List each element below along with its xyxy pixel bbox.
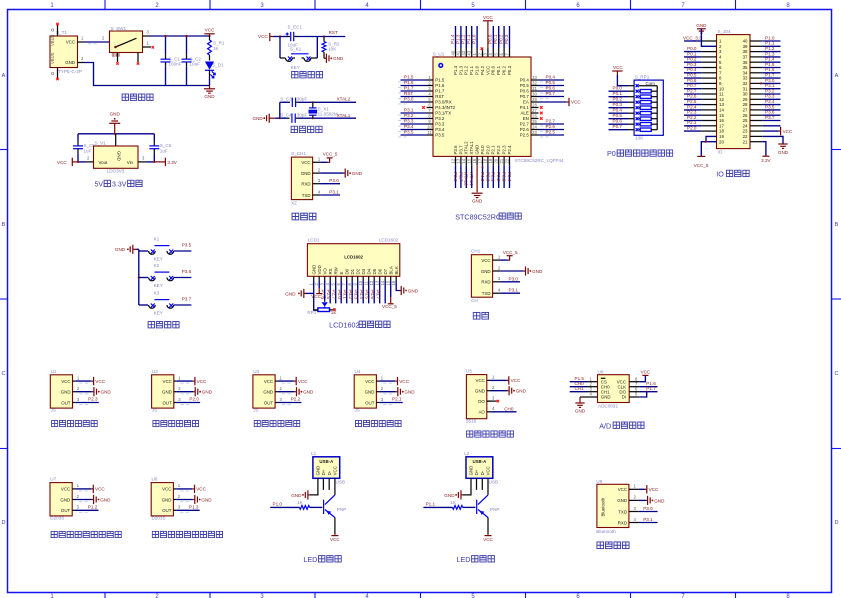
svg-text:18: 18: [719, 129, 724, 134]
pin DO no-connect: [487, 400, 497, 402]
resistor RP1 element P0.4: [609, 108, 658, 115]
5V to 3.3V LDO circuit block: [57, 112, 178, 189]
MCU right pin 23 P2.5: [520, 129, 564, 137]
regulator S_V1 LDO3V3: [94, 146, 139, 168]
MCU left pin 10 P3.4: [398, 124, 445, 132]
svg-text:13: 13: [375, 280, 380, 285]
LCD pin 7 D0: [337, 268, 349, 303]
wire CH0 U5 AO: [491, 411, 517, 413]
svg-text:STC89C52RC: STC89C52RC: [455, 212, 501, 221]
svg-text:GND: GND: [100, 497, 111, 502]
svg-text:S_CH1: S_CH1: [291, 151, 306, 156]
svg-text:VCC: VCC: [162, 487, 171, 492]
svg-text:P1.3: P1.3: [455, 34, 460, 44]
svg-text:B: B: [835, 222, 839, 228]
svg-text:P0.1: P0.1: [496, 65, 501, 75]
svg-text:P1.4: P1.4: [765, 57, 775, 62]
svg-text:16: 16: [391, 280, 396, 285]
svg-text:40: 40: [743, 39, 748, 44]
svg-text:P3.0: P3.0: [329, 178, 339, 183]
svg-text:EA: EA: [523, 100, 529, 105]
svg-text:A: A: [2, 73, 6, 79]
svg-text:D+: D+: [474, 469, 479, 475]
pin T1 top with no-ERC: [57, 25, 59, 37]
caption 复位电路: [292, 72, 323, 78]
wire P3.1 pin4: [500, 292, 520, 294]
svg-text:OUT: OUT: [163, 400, 173, 405]
caption 下载口: [292, 213, 316, 220]
svg-text:E: E: [339, 272, 344, 275]
svg-text:U4: U4: [355, 369, 361, 374]
svg-text:D+: D+: [321, 469, 326, 475]
power port VCC of U7: [75, 485, 105, 493]
svg-text:P4.1: P4.1: [520, 105, 530, 110]
power port 3.3V: [154, 161, 165, 163]
svg-text:30: 30: [532, 91, 537, 96]
svg-text:PNP: PNP: [490, 507, 499, 512]
svg-text:1uF: 1uF: [160, 148, 168, 153]
svg-text:GND: GND: [263, 390, 273, 395]
svg-text:VCC: VCC: [196, 487, 206, 492]
resistor RP1 element P0.3: [609, 102, 658, 109]
svg-text:D6: D6: [377, 268, 382, 274]
svg-text:P0.1: P0.1: [613, 91, 623, 96]
wire P2.3 IO left pin 15: [684, 110, 717, 116]
caption 红外对射模块 (U1): [52, 420, 98, 426]
resistor S_R1 1K: [209, 36, 211, 40]
caption 串口: [473, 312, 488, 319]
svg-text:3.3V: 3.3V: [167, 160, 177, 165]
svg-text:TXD: TXD: [482, 291, 491, 296]
A/D converter U6 ADC0832: [570, 369, 658, 430]
resistor RP1 element P0.6: [609, 119, 658, 126]
wire CH1 U6 left pin 3: [570, 386, 598, 392]
svg-text:P0.7: P0.7: [376, 290, 381, 300]
svg-text:P0.6: P0.6: [520, 89, 530, 94]
power port 3.3V bottom: [750, 141, 762, 143]
svg-text:LCD1602: LCD1602: [329, 320, 359, 329]
switch pin1 no connect: [143, 46, 152, 48]
wire P1.5 IO right pin 35: [750, 62, 781, 68]
svg-text:OUT: OUT: [61, 508, 71, 513]
MCU top pin P4.2: [477, 47, 485, 75]
svg-text:P1.0: P1.0: [765, 35, 775, 40]
svg-text:P0.1: P0.1: [343, 290, 348, 300]
svg-text:32: 32: [743, 81, 748, 86]
svg-text:26: 26: [743, 113, 748, 118]
MCU top pin P0.1: [493, 26, 501, 75]
svg-text:D: D: [835, 520, 839, 526]
ground GND of U4: [379, 387, 415, 396]
svg-text:P1.0: P1.0: [475, 65, 480, 75]
resistor 1K base: [299, 506, 309, 510]
svg-text:27: 27: [532, 108, 537, 113]
svg-text:P3.5: P3.5: [435, 133, 445, 138]
svg-text:P0: P0: [607, 149, 616, 158]
wire P3.0 pin3: [500, 281, 520, 283]
svg-text:10K: 10K: [635, 135, 644, 140]
MCU bottom pin P2.3: [499, 145, 507, 188]
svg-text:33: 33: [532, 75, 537, 80]
MCU bottom pin P2.0: [483, 145, 491, 188]
svg-text:P3.1/TX: P3.1/TX: [435, 111, 451, 116]
svg-text:U9: U9: [596, 479, 602, 484]
svg-text:P3.1: P3.1: [404, 107, 414, 112]
svg-text:VCC: VCC: [365, 379, 374, 384]
svg-text:XZ: XZ: [291, 200, 297, 205]
wire CH0 U6 left pin 2: [570, 381, 598, 387]
svg-text:P0.1: P0.1: [493, 34, 498, 44]
wire P3.3 IO right pin 29: [750, 94, 781, 100]
svg-text:OUT: OUT: [162, 508, 172, 513]
LCD body: [307, 244, 399, 277]
wire XTAL1 bottom: [275, 117, 287, 119]
svg-text:P0.4: P0.4: [359, 290, 364, 300]
MCU right pin 28 P4.1: [520, 102, 543, 110]
svg-text:12: 12: [719, 97, 724, 102]
svg-text:5V: 5V: [95, 182, 104, 189]
svg-text:IO: IO: [718, 149, 723, 154]
svg-text:P0.3: P0.3: [613, 102, 623, 107]
svg-text:P2.2: P2.2: [687, 115, 697, 120]
svg-text:10: 10: [427, 124, 432, 129]
wire P0.3 IO left pin 6: [684, 62, 717, 68]
MCU left pin 5 P3.0/RX: [398, 96, 452, 104]
USB D+ D- stubs: [322, 478, 324, 490]
power port VCC left: [72, 161, 78, 163]
svg-text:15: 15: [467, 158, 472, 163]
svg-text:S_SW1: S_SW1: [111, 26, 127, 31]
svg-text:24: 24: [532, 124, 537, 129]
svg-text:VCC: VCC: [61, 487, 70, 492]
svg-text:25: 25: [743, 118, 748, 123]
zone numbers top: [50, 3, 790, 9]
svg-text:XTAL1: XTAL1: [469, 172, 474, 186]
svg-text:P0.2: P0.2: [502, 65, 507, 75]
svg-text:29: 29: [532, 97, 537, 102]
wire P0.6 IO left pin 9: [684, 78, 717, 84]
infrared modules row: [50, 369, 415, 427]
svg-text:GND: GND: [303, 390, 314, 395]
svg-text:P0.6: P0.6: [613, 119, 623, 124]
svg-text:GND: GND: [472, 199, 483, 204]
svg-text:VCC_5: VCC_5: [382, 304, 397, 309]
wire P0.2 IO left pin 5: [684, 57, 717, 63]
LCD pin 15 BLA: [386, 266, 394, 285]
svg-text:P1.2: P1.2: [461, 34, 466, 44]
LED D1: [205, 62, 214, 70]
svg-text:CH: CH: [471, 298, 478, 303]
svg-text:11: 11: [364, 280, 369, 285]
ground GND U6 pin4: [580, 396, 598, 398]
svg-text:P1.1: P1.1: [426, 502, 436, 507]
LCD pin 16 BLK: [391, 266, 399, 285]
svg-text:VCC: VCC: [95, 379, 105, 384]
power port VCC of U8: [176, 485, 206, 493]
svg-text:P3.7: P3.7: [458, 145, 463, 155]
svg-text:P1.5: P1.5: [404, 74, 414, 79]
module U7: [50, 477, 80, 521]
module U8: [151, 477, 181, 521]
svg-text:P1.5: P1.5: [765, 62, 775, 67]
svg-text:GND: GND: [601, 395, 611, 400]
svg-text:VCC: VCC: [618, 487, 627, 492]
wire P3.1 IO right pin 31: [750, 83, 781, 89]
svg-text:U5: U5: [466, 369, 472, 374]
svg-text:39: 39: [743, 44, 748, 49]
svg-text:32: 32: [532, 80, 537, 85]
reset circuit block 复位电路: [258, 25, 345, 78]
wire GND return bottom rail: [78, 62, 85, 64]
resistor S_R2 10K: [323, 37, 325, 42]
svg-text:P1.2: P1.2: [88, 504, 98, 509]
wire P1.7 IO right pin 33: [750, 73, 781, 79]
svg-text:21: 21: [499, 158, 504, 163]
ground GND right: [750, 135, 762, 137]
svg-text:RS: RS: [328, 268, 333, 274]
svg-text:GND: GND: [202, 390, 213, 395]
svg-text:P2.6: P2.6: [546, 124, 556, 129]
caption 红外对射模块 (U4): [355, 420, 401, 426]
svg-text:STC89C52RC_LQFP44: STC89C52RC_LQFP44: [515, 158, 564, 163]
zone letters right: [835, 73, 839, 526]
wire P2.7 IO left pin 11: [684, 88, 717, 94]
svg-text:22: 22: [504, 158, 509, 163]
svg-text:VCC: VCC: [298, 379, 308, 384]
svg-text:P1.0: P1.0: [273, 502, 283, 507]
ground GND LCD pin1 + contrast branch: [314, 281, 318, 310]
power port VCC_5 pin1: [320, 161, 327, 163]
MCU bottom pin XTAL1: [467, 141, 475, 188]
wire P1.2 IO right pin 38: [750, 46, 781, 52]
svg-text:USB: USB: [489, 479, 498, 484]
svg-text:K3: K3: [154, 291, 160, 296]
svg-text:100nF: 100nF: [169, 62, 182, 67]
svg-text:P2.5: P2.5: [687, 99, 697, 104]
svg-text:12: 12: [369, 280, 374, 285]
svg-text:25: 25: [532, 119, 537, 124]
svg-text:P3.0: P3.0: [404, 96, 414, 101]
svg-text:P0.0: P0.0: [488, 34, 493, 44]
svg-text:P1.1: P1.1: [466, 34, 471, 44]
svg-text:30: 30: [743, 92, 748, 97]
svg-text:TXD: TXD: [302, 193, 311, 198]
svg-text:P1.2: P1.2: [464, 65, 469, 75]
svg-text:3.3V: 3.3V: [112, 182, 127, 189]
svg-text:GND: GND: [475, 389, 485, 394]
svg-text:OUT: OUT: [61, 400, 71, 405]
svg-text:CH1: CH1: [575, 386, 585, 391]
svg-text:14: 14: [461, 158, 466, 163]
svg-text:P1.5: P1.5: [435, 78, 445, 83]
MCU left pin 7 P3.1/TX: [398, 107, 451, 115]
svg-text:18: 18: [483, 158, 488, 163]
svg-text:P3.7: P3.7: [458, 172, 463, 182]
power port VCC_5 LCD pin2 VDD: [318, 281, 320, 288]
wire P3.1 U9 RXD: [639, 522, 658, 524]
svg-text:P3.6: P3.6: [182, 269, 192, 274]
PIR modules row 人体热释电感应模块: [50, 477, 223, 538]
wire P0.7 IO left pin 10: [684, 83, 717, 89]
svg-text:P0.0: P0.0: [613, 86, 623, 91]
svg-text:RST: RST: [435, 94, 444, 99]
svg-text:27: 27: [743, 108, 748, 113]
svg-text:14: 14: [719, 108, 724, 113]
svg-text:GND: GND: [516, 389, 527, 394]
svg-text:19: 19: [719, 134, 724, 139]
svg-text:D0: D0: [344, 268, 349, 274]
ground GND right-facing: [324, 57, 326, 59]
connector S_CH1: [291, 151, 321, 206]
ground GND of U2: [177, 387, 213, 396]
svg-text:S_V1: S_V1: [95, 140, 107, 145]
svg-text:D2: D2: [355, 268, 360, 274]
LCD pin 2 VDD: [314, 265, 322, 285]
svg-text:S_C4: S_C4: [280, 113, 292, 118]
svg-text:P0.7: P0.7: [687, 83, 697, 88]
svg-text:D-: D-: [480, 470, 485, 475]
svg-text:P1.6: P1.6: [404, 80, 414, 85]
USB connector L2 USB-A: [466, 457, 493, 479]
svg-text:DO: DO: [619, 389, 626, 394]
power port VCC of U1: [75, 377, 105, 385]
svg-text:KEY: KEY: [154, 283, 163, 288]
svg-text:10: 10: [358, 280, 363, 285]
svg-text:VCC: VCC: [66, 40, 75, 45]
svg-text:P2.2: P2.2: [291, 397, 301, 402]
svg-text:S_C3: S_C3: [280, 96, 292, 101]
svg-text:U2: U2: [152, 369, 158, 374]
svg-text:40: 40: [450, 50, 455, 55]
svg-text:ALE: ALE: [520, 111, 528, 116]
svg-text:11: 11: [719, 92, 724, 97]
wire P1.0 IO right pin 40: [750, 35, 781, 41]
power port VCC: [209, 34, 211, 36]
wire P0.1 IO left pin 4: [684, 51, 717, 57]
USB D+ D- stubs: [476, 478, 478, 490]
svg-text:P2.1: P2.1: [392, 397, 402, 402]
svg-text:VBUS: VBUS: [50, 52, 55, 64]
svg-text:GND: GND: [404, 390, 415, 395]
svg-text:VCC: VCC: [649, 487, 659, 492]
wire vertical left: [279, 102, 281, 118]
svg-text:GND: GND: [696, 23, 707, 28]
wire P0.4 IO left pin 7: [684, 67, 717, 73]
P0 pull-up resistor network block: [607, 65, 673, 158]
svg-text:30pF: 30pF: [297, 96, 308, 101]
svg-text:P0.6: P0.6: [370, 290, 375, 300]
svg-text:P2.3: P2.3: [502, 172, 507, 182]
svg-text:D-: D-: [327, 470, 332, 475]
light detection module U5: [466, 369, 527, 437]
svg-text:L2: L2: [464, 451, 470, 456]
MCU bottom pin GND: [472, 145, 483, 204]
wire emitter to VCC: [334, 518, 336, 535]
svg-text:P3.3: P3.3: [765, 94, 775, 99]
zone numbers bottom: [50, 594, 790, 598]
svg-text:P3.2: P3.2: [404, 113, 414, 118]
USB GND pin to ground: [310, 478, 318, 495]
svg-text:D7: D7: [383, 268, 388, 274]
svg-text:GND: GND: [475, 145, 480, 155]
wire P0.0 IO left pin 3: [684, 46, 717, 52]
LED light circuit 1: [270, 451, 346, 564]
svg-text:P0.5: P0.5: [546, 80, 556, 85]
MCU left pin 1 P1.5: [398, 74, 445, 82]
MCU top pin P1.3: [455, 26, 463, 75]
svg-text:VO: VO: [322, 268, 327, 275]
svg-text:VCC_5: VCC_5: [694, 163, 709, 168]
wire P1.5 U6 left pin 1: [570, 376, 598, 382]
svg-text:VCC_3.3: VCC_3.3: [683, 36, 702, 41]
svg-text:JS: JS: [152, 408, 157, 413]
power port VCC right: [750, 130, 762, 132]
svg-text:GND: GND: [352, 171, 363, 176]
svg-text:VCC: VCC: [485, 66, 490, 75]
svg-text:P0.4: P0.4: [546, 74, 556, 79]
svg-text:24: 24: [743, 123, 748, 128]
svg-text:P1.6: P1.6: [765, 67, 775, 72]
svg-text:3.3V: 3.3V: [761, 158, 771, 163]
zone letters left: [2, 73, 6, 526]
ground GND of U3: [278, 387, 314, 396]
svg-text:P2.7: P2.7: [520, 122, 530, 127]
potentiometer RP1 1K: [322, 302, 328, 306]
svg-text:1K: 1K: [213, 46, 220, 51]
svg-text:P0.7: P0.7: [613, 124, 623, 129]
svg-text:CH1: CH1: [601, 389, 610, 394]
svg-text:VCC: VCC: [399, 379, 409, 384]
svg-text:TXD: TXD: [618, 509, 627, 514]
svg-text:P0.2: P0.2: [613, 97, 623, 102]
svg-text:P2.5: P2.5: [326, 290, 331, 300]
key switch K3 KEY: [139, 291, 192, 316]
MCU right pin 26 EN: [523, 113, 543, 121]
svg-text:11: 11: [427, 130, 432, 135]
svg-text:19: 19: [488, 158, 493, 163]
svg-text:P0.4: P0.4: [520, 78, 530, 83]
svg-text:P0.2: P0.2: [687, 57, 697, 62]
svg-text:GND: GND: [60, 497, 70, 502]
caption 按键电路: [148, 322, 179, 328]
svg-text:13: 13: [719, 102, 724, 107]
wire P3.1 pin4: [320, 194, 340, 196]
MCU bottom pin P3.7: [456, 145, 464, 188]
svg-text:P0.5: P0.5: [365, 290, 370, 300]
key switch S_K1 KEY: [279, 37, 281, 59]
svg-text:P3.7: P3.7: [182, 296, 192, 301]
svg-text:P2.4: P2.4: [687, 104, 697, 109]
svg-text:23: 23: [532, 130, 537, 135]
svg-text:GND: GND: [285, 291, 296, 296]
svg-text:P2.2: P2.2: [496, 172, 501, 182]
wire GND trunk vertical: [138, 249, 140, 305]
svg-text:VCC: VCC: [95, 487, 105, 492]
LCD pin 5 RW: [326, 266, 338, 303]
svg-text:U6: U6: [598, 369, 604, 374]
svg-text:P0.0: P0.0: [337, 290, 342, 300]
svg-text:30pF: 30pF: [297, 113, 308, 118]
svg-text:P0.3: P0.3: [354, 290, 359, 300]
MCU bottom pin P2.2: [494, 145, 502, 188]
svg-text:P1.4: P1.4: [453, 65, 458, 75]
svg-text:P2.0: P2.0: [189, 397, 199, 402]
wire VCC_5 bottom left: [706, 136, 717, 141]
svg-text:P3.1: P3.1: [643, 517, 653, 522]
MCU right pin 30 P0.7: [520, 91, 564, 99]
svg-text:P3.0/RX: P3.0/RX: [435, 100, 451, 105]
svg-text:21: 21: [743, 139, 748, 144]
